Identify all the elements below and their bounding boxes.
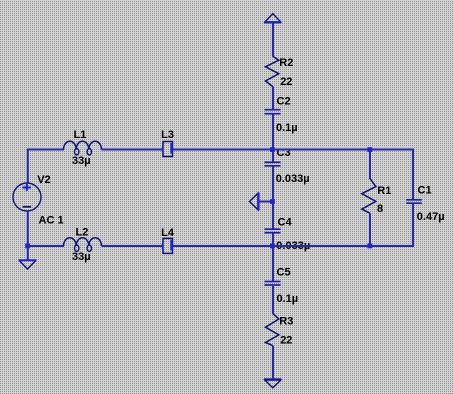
svg-text:L3: L3 (161, 129, 174, 141)
node junction middle (270, 199, 275, 204)
svg-text:0.033µ: 0.033µ (276, 173, 310, 185)
svg-text:0.1µ: 0.1µ (277, 293, 299, 305)
capacitor C3 (265, 162, 281, 166)
svg-text:L1: L1 (74, 129, 87, 141)
svg-text:33µ: 33µ (72, 251, 91, 263)
wire C5 to R3 (272, 286, 274, 314)
ground symbol (below V2) (19, 260, 37, 269)
wire R2 to C2 (272, 87, 274, 110)
wire halos (resampling softness) (26, 23, 413, 379)
svg-text:22: 22 (280, 76, 292, 88)
svg-text:C1: C1 (418, 185, 432, 197)
ground arrow left (mid reference) (250, 193, 259, 211)
svg-text:22: 22 (280, 335, 292, 347)
inductor L3 (162, 142, 173, 157)
wire L2 to L4 (102, 245, 164, 247)
wire L1 to L3 (102, 149, 164, 151)
node junction bottom left (25, 244, 30, 249)
wire top rail left corner (28, 150, 64, 151)
wire V2 bottom lead (27, 211, 29, 247)
svg-text:0.1µ: 0.1µ (276, 122, 298, 134)
wire top junction to C3 (272, 150, 274, 162)
resistor R1 (362, 150, 376, 247)
node junction top right (367, 147, 372, 152)
resistor R2 (266, 56, 279, 86)
inductor L2 (64, 238, 102, 252)
wire bottom rail middle-right (273, 245, 370, 247)
wire C2 to top rail junction (272, 115, 274, 150)
wire bottom rail left (28, 245, 64, 247)
wire C4 to bottom rail junction (272, 234, 274, 247)
wire arrow to middle junction (259, 201, 273, 203)
svg-text:R2: R2 (279, 57, 293, 69)
svg-text:R1: R1 (377, 185, 391, 197)
wire middle junction to C4 (272, 202, 274, 229)
capacitor C1 (406, 200, 422, 203)
svg-text:AC 1: AC 1 (39, 215, 64, 227)
wire bottom rail right (370, 204, 413, 247)
wire port to R2 (272, 23, 274, 57)
capacitor C4 (265, 229, 281, 233)
wire L3 to junction (173, 149, 273, 151)
inductor L4 (162, 238, 173, 253)
svg-text:0.47µ: 0.47µ (417, 211, 445, 223)
voltage source V2 (13, 183, 41, 211)
svg-text:L2: L2 (76, 227, 89, 239)
svg-text:8: 8 (377, 203, 383, 215)
svg-text:C2: C2 (277, 96, 291, 108)
wire L4 to bottom middle junction (173, 245, 273, 247)
capacitor C2 (265, 110, 281, 114)
svg-text:C5: C5 (277, 267, 291, 279)
inductor L1 (64, 141, 102, 155)
wire R3 to bottom arrow (272, 346, 274, 380)
power port arrow up (top) (264, 14, 281, 23)
wire C3 to middle junction (272, 167, 274, 202)
wire C4 junction to C5 (272, 246, 274, 281)
svg-text:33µ: 33µ (72, 155, 91, 167)
wire top rail right (370, 150, 413, 200)
node junction bottom right (367, 244, 372, 249)
svg-text:C4: C4 (278, 217, 293, 229)
svg-text:V2: V2 (37, 174, 50, 186)
svg-text:R3: R3 (279, 316, 293, 328)
capacitor C5 (265, 282, 281, 286)
node junction bottom middle (270, 244, 275, 249)
power port arrow down (bottom) (264, 379, 281, 387)
node junction top middle (270, 147, 275, 152)
svg-text:L4: L4 (161, 227, 175, 239)
wire V2 top lead (27, 150, 29, 183)
resistor R3 (266, 313, 279, 345)
wire junction to ground stub (27, 246, 29, 260)
wire junction to R1 branch (273, 149, 370, 151)
